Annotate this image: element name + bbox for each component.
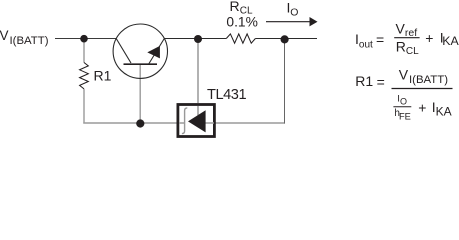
svg-text:R1: R1	[355, 73, 373, 89]
svg-text:=: =	[376, 31, 384, 47]
svg-text:out: out	[359, 39, 373, 50]
svg-text:FE: FE	[399, 112, 411, 122]
svg-text:R: R	[230, 0, 240, 14]
svg-text:R1: R1	[94, 67, 112, 83]
svg-text:+: +	[425, 30, 433, 46]
svg-text:I(BATT): I(BATT)	[10, 35, 49, 47]
svg-text:R: R	[396, 38, 406, 54]
svg-text:O: O	[400, 96, 407, 106]
svg-text:+: +	[418, 100, 426, 116]
svg-text:CL: CL	[406, 46, 419, 57]
svg-text:=: =	[377, 74, 385, 90]
svg-text:O: O	[290, 7, 298, 19]
svg-text:V: V	[399, 67, 409, 83]
svg-text:TL431: TL431	[207, 87, 246, 103]
svg-text:0.1%: 0.1%	[226, 15, 257, 30]
svg-text:KA: KA	[442, 34, 459, 48]
svg-text:V: V	[0, 28, 9, 43]
svg-text:I(BATT): I(BATT)	[409, 74, 448, 86]
svg-text:KA: KA	[436, 105, 452, 119]
